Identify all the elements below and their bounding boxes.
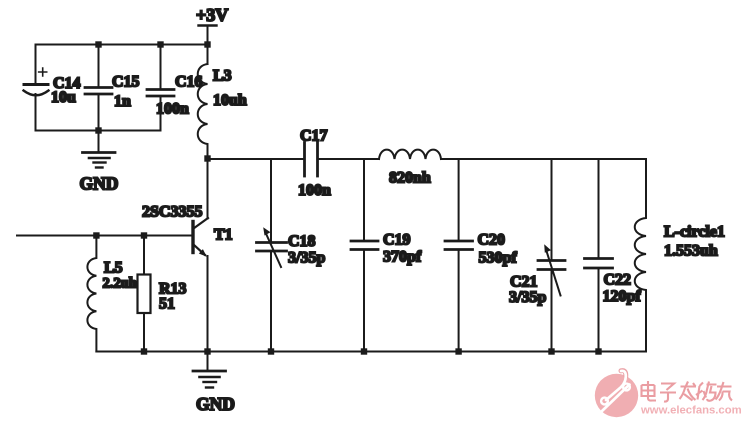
- wire base input: [17, 235, 193, 237]
- inductor L-circle1 (1.553uh): [635, 159, 725, 352]
- wire bottom-left rail: [36, 130, 161, 132]
- svg-text:100n: 100n: [298, 182, 331, 199]
- svg-text:3/35p: 3/35p: [288, 250, 325, 267]
- svg-text:C17: C17: [300, 128, 328, 145]
- inductor L3 (10uh): [198, 64, 247, 159]
- watermark chinese text shao: [696, 382, 717, 401]
- watermark url elecfans: [640, 405, 742, 417]
- node bottom rail / emitter junction: [204, 348, 210, 354]
- watermark chinese text you: [716, 382, 733, 401]
- node bottom rail / C21 junction: [548, 348, 554, 354]
- power +3V: [196, 5, 228, 64]
- svg-text:C21: C21: [510, 274, 538, 291]
- wire main rail segment 2: [318, 158, 379, 160]
- capacitor C14 (electrolytic 10u): [24, 45, 81, 131]
- svg-text:820nh: 820nh: [389, 170, 431, 187]
- svg-text:120pf: 120pf: [603, 288, 642, 305]
- wire main rail segment 1: [208, 158, 305, 160]
- capacitor C16 (100n): [147, 45, 203, 131]
- node top rail / C15 junction: [95, 41, 101, 47]
- capacitor C17 (100n series): [298, 128, 331, 200]
- capacitor C22 (120pf): [585, 159, 642, 352]
- capacitor C21 (variable 3/35p): [509, 159, 565, 352]
- watermark chinese text zi: [660, 384, 676, 402]
- svg-text:C15: C15: [112, 74, 140, 91]
- svg-text:3/35p: 3/35p: [509, 289, 546, 306]
- node input / R13 junction: [141, 232, 147, 238]
- svg-text:GND: GND: [80, 174, 119, 194]
- node main rail / L3 junction: [204, 155, 210, 161]
- node top rail / C16 junction: [157, 41, 163, 47]
- inductor L5 (2.2uh): [87, 236, 136, 352]
- svg-text:100n: 100n: [156, 101, 189, 118]
- inductor 820nh: [379, 150, 441, 187]
- svg-text:370pf: 370pf: [383, 249, 422, 266]
- svg-text:C20: C20: [478, 232, 506, 249]
- svg-text:1.553uh: 1.553uh: [664, 243, 718, 260]
- svg-text:10uh: 10uh: [213, 92, 247, 109]
- node bottom rail / R13 junction: [141, 348, 147, 354]
- svg-text:2.2uh: 2.2uh: [103, 276, 137, 292]
- node bottom rail / C18 junction: [268, 348, 274, 354]
- svg-text:2SC3355: 2SC3355: [142, 204, 202, 221]
- svg-text:C18: C18: [288, 233, 316, 250]
- wire main rail segment 3: [441, 158, 646, 160]
- node bottom rail / C19 junction: [361, 348, 367, 354]
- capacitor C20 (530pf): [445, 159, 517, 352]
- node bottom rail / C20 junction: [455, 348, 461, 354]
- svg-text:L-circle1: L-circle1: [664, 224, 725, 241]
- capacitor C19 (370pf): [351, 159, 422, 352]
- svg-text:C19: C19: [383, 232, 411, 249]
- transistor Q T1 2SC3355: [142, 159, 233, 352]
- svg-text:51: 51: [159, 296, 175, 313]
- svg-text:L5: L5: [104, 260, 123, 277]
- watermark chinese text dian: [642, 381, 657, 401]
- wire top-left rail: [36, 44, 208, 46]
- node top rail / power junction: [204, 41, 210, 47]
- ground GND (emitter): [193, 352, 235, 415]
- svg-text:GND: GND: [196, 394, 235, 414]
- wire bottom rail: [96, 351, 646, 353]
- svg-text:+3V: +3V: [196, 5, 228, 25]
- svg-text:www.elecfans.com: www.elecfans.com: [640, 405, 742, 417]
- svg-text:C22: C22: [604, 272, 632, 289]
- resistor R13 (51): [138, 236, 187, 352]
- svg-text:L3: L3: [213, 68, 232, 85]
- capacitor C15 (1n): [85, 45, 140, 131]
- watermark chinese text fa: [680, 382, 697, 401]
- watermark logo elecfans: [595, 371, 638, 418]
- node bottom-left rail / GND junction: [95, 127, 101, 133]
- svg-text:10u: 10u: [51, 89, 76, 106]
- capacitor C18 (variable 3/35p): [257, 159, 326, 352]
- svg-text:T1: T1: [214, 227, 233, 244]
- svg-text:1n: 1n: [114, 93, 131, 110]
- node input / L5 junction: [93, 232, 99, 238]
- node bottom rail / C22 junction: [595, 348, 601, 354]
- ground GND (left): [80, 131, 119, 194]
- svg-text:530pf: 530pf: [479, 250, 518, 267]
